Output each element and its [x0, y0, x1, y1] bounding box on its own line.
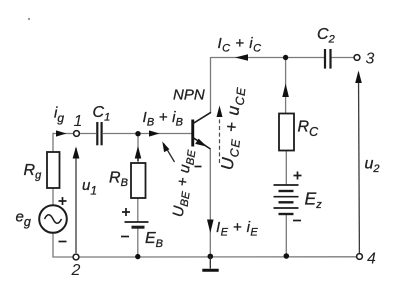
wire input horizontal left (corner to node 1): [53, 133, 74, 135]
current arrow through RC: [282, 84, 289, 98]
terminal node 2: [73, 254, 79, 260]
wire C1 to base junction: [103, 133, 138, 135]
wire RB to junction: [137, 134, 139, 163]
wire eg to bottom: [53, 233, 74, 257]
capacitor C1: [97, 122, 101, 145]
wire Ez battery to bottom: [285, 215, 287, 257]
transistor Q1 NPN: [191, 112, 211, 149]
wire Rg to eg: [52, 188, 54, 206]
wire RC to top junction: [285, 58, 287, 114]
annotation arrow UBE: [162, 142, 174, 163]
plus sign Ez: [294, 172, 302, 180]
minus sign Ez: [293, 220, 301, 222]
voltage arrow UCE+uCE dashed: [217, 106, 223, 164]
resistor RB: [131, 163, 146, 198]
svg-text:4: 4: [367, 251, 376, 268]
current arrow IB+iB: [149, 130, 160, 136]
terminal node 4: [357, 254, 363, 260]
wire emitter vertical: [209, 149, 211, 257]
minus sign UBE: [195, 166, 202, 168]
wire base junction to transistor base: [138, 133, 192, 135]
junction base node: [135, 131, 140, 136]
wire RC to Ez battery: [285, 151, 287, 185]
resistor RC: [279, 114, 294, 151]
base bar: [191, 120, 194, 147]
plus sign EB: [122, 208, 130, 216]
current arrow IE+iE: [207, 220, 214, 234]
battery EB: [125, 222, 149, 227]
wire C2 to node3: [332, 57, 355, 59]
voltage arrow u1: [73, 147, 80, 254]
plus sign eg: [59, 197, 67, 205]
current arrow ig: [56, 130, 67, 136]
voltage arrow u2: [355, 71, 362, 254]
battery Ez: [274, 185, 299, 214]
ground: [202, 256, 218, 270]
current arrow IC+iC: [235, 54, 248, 61]
junction emitter bottom: [208, 254, 214, 260]
collector lead: [193, 112, 212, 124]
minus sign eg: [59, 241, 67, 243]
current arrow through RB: [135, 146, 142, 161]
junction Ez bottom: [284, 253, 290, 259]
terminal node 3: [354, 55, 360, 61]
wire bottom node2 to node4: [79, 256, 357, 258]
emitter lead: [193, 137, 211, 149]
svg-text:NPN: NPN: [173, 87, 205, 104]
junction EB bottom: [135, 254, 140, 259]
capacitor C2: [325, 49, 331, 69]
terminal node 1: [74, 131, 80, 137]
wire left vertical corner to Rg: [52, 133, 54, 152]
minus sign EB: [121, 236, 129, 238]
scan speck: [28, 18, 30, 20]
svg-text:2: 2: [71, 262, 81, 279]
resistor Rg: [47, 152, 60, 188]
emitter arrowhead: [195, 139, 207, 147]
wire EB battery to bottom: [137, 228, 139, 257]
svg-text:3: 3: [366, 51, 375, 68]
wire top collector to C2: [211, 57, 325, 59]
source eg: [39, 205, 67, 233]
wire node1 to C1: [80, 133, 97, 135]
junction RC top: [283, 55, 288, 60]
wire RB to EB battery: [137, 198, 139, 222]
wire collector vertical: [210, 57, 212, 113]
svg-text:1: 1: [74, 113, 83, 130]
